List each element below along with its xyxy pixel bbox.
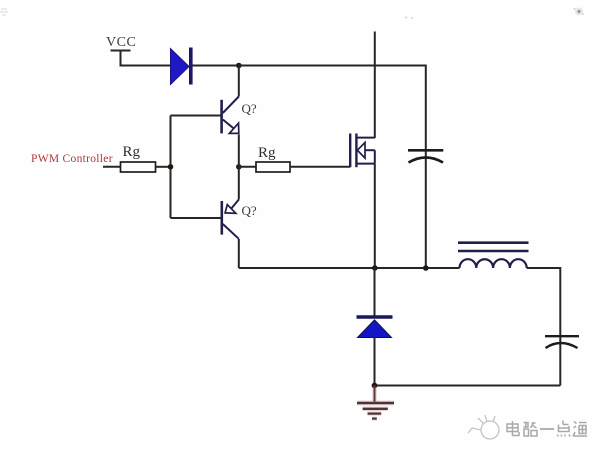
- resistor Rg2: [256, 162, 290, 172]
- resistor Rg1: [121, 162, 156, 172]
- wire node C down to Q2 emitter: [238, 167, 240, 200]
- wire Rg2 to gate: [290, 166, 350, 168]
- node C (junction dot): [236, 164, 242, 170]
- node D (junction dot): [372, 265, 378, 271]
- label Rg2: [258, 145, 276, 161]
- capacitor C1: [408, 150, 443, 162]
- transistor Q1 (NPN): [222, 97, 239, 134]
- wire Q2 collector down: [238, 239, 240, 268]
- ground: [357, 386, 394, 419]
- wire C2 bottom down to corner: [559, 343, 561, 386]
- wire VCC to diode D1: [120, 65, 171, 67]
- wire node D down to D2: [374, 268, 376, 317]
- capacitor C2: [545, 336, 579, 348]
- wire source vertical down: [374, 164, 376, 268]
- char 一: [540, 428, 554, 430]
- svg-text:Q?: Q?: [242, 203, 257, 218]
- label VCC: [106, 35, 136, 50]
- wire top rail corner down to C1: [425, 65, 427, 158]
- char 点: [558, 421, 571, 437]
- label Q2 Q?: [242, 203, 257, 218]
- mosfet M1 drain stub: [356, 137, 374, 139]
- wire D1 to node A: [192, 65, 239, 67]
- inductor L1 winding: [460, 259, 527, 268]
- mosfet M1 source stub: [356, 163, 374, 165]
- wire Q1 base: [171, 115, 222, 117]
- wire node A to top rail right: [239, 65, 426, 67]
- wire left vertical bus: [170, 116, 172, 219]
- mosfet M1 channel line: [355, 134, 357, 168]
- wire bottom rail (output return): [375, 385, 561, 387]
- transistor Q2 (PNP): [222, 200, 239, 239]
- svg-text:PWM Controller: PWM Controller: [31, 153, 113, 165]
- label Q1 Q?: [242, 101, 257, 116]
- svg-text:Rg: Rg: [123, 144, 141, 160]
- wire node C to Rg2: [239, 166, 256, 168]
- wire bottom rail left: [239, 267, 460, 269]
- mosfet M1 source-body tie: [374, 150, 376, 163]
- mosfet M1 gate line: [349, 134, 351, 168]
- wire Rg1 to node B: [156, 166, 171, 168]
- node B (junction dot): [168, 164, 174, 170]
- wire drain vertical (top): [374, 32, 376, 139]
- svg-text:Q?: Q?: [242, 101, 257, 116]
- wire L1 right to corner: [527, 267, 561, 269]
- char 通: [573, 422, 587, 437]
- mosfet M1 body arrow: [357, 143, 374, 159]
- wire C1 bottom to node E: [425, 158, 427, 268]
- watermark logo: [468, 415, 499, 439]
- node F (junction dot): [372, 383, 378, 389]
- char 电: [507, 421, 519, 436]
- wire Q2 base: [171, 217, 222, 219]
- wire D2 anode down to node F: [374, 338, 376, 386]
- wire Q1 emitter to node C: [238, 135, 240, 167]
- label PWM Controller: [31, 153, 113, 165]
- node E (junction dot): [423, 265, 429, 271]
- svg-text:Rg: Rg: [258, 145, 276, 161]
- inductor L1 core lines: [458, 243, 529, 251]
- char 路: [524, 423, 538, 437]
- wire PWM input: [103, 166, 121, 168]
- svg-text:VCC: VCC: [106, 35, 136, 50]
- diode D1: [171, 48, 191, 85]
- label Rg1: [123, 144, 141, 160]
- power symbol VCC: [111, 51, 131, 66]
- wire node A down to Q1 collector: [238, 66, 240, 97]
- node A (junction dot): [236, 63, 242, 69]
- diode D2 (freewheeling): [357, 317, 393, 338]
- watermark text 电路一点通: [507, 421, 587, 437]
- wire right vertical to C2: [559, 267, 561, 342]
